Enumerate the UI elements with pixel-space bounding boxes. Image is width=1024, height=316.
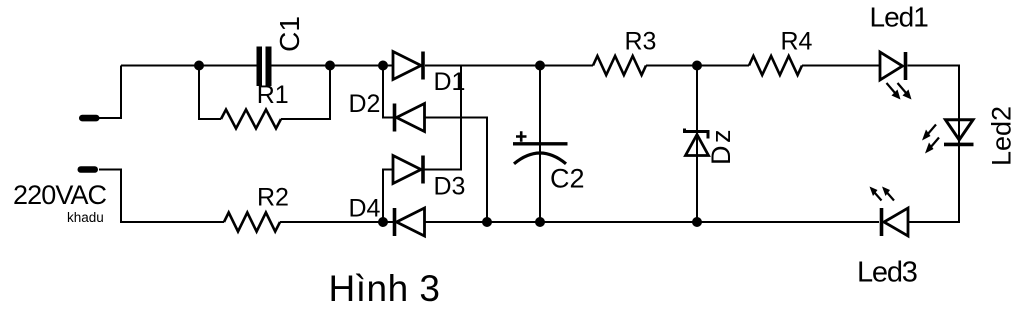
wire <box>383 170 393 223</box>
diode D4 <box>395 208 425 236</box>
diode D3 <box>393 156 423 184</box>
wire <box>281 66 330 120</box>
wire <box>802 65 880 67</box>
capacitor C2 <box>513 131 568 164</box>
svg-text:C1: C1 <box>274 16 305 52</box>
svg-text:Led1: Led1 <box>870 1 929 32</box>
capacitor C1 <box>257 47 272 87</box>
svg-text:Dz: Dz <box>706 127 736 165</box>
node <box>692 217 702 227</box>
wire <box>99 66 121 119</box>
node <box>535 61 545 71</box>
resistor R4 <box>749 56 802 75</box>
wire <box>199 66 221 120</box>
svg-text:220VAC: 220VAC <box>13 180 107 210</box>
svg-text:C2: C2 <box>550 164 585 194</box>
svg-text:D1: D1 <box>434 68 466 96</box>
zener diode Dz <box>685 129 709 156</box>
wire <box>425 65 593 67</box>
node <box>535 217 545 227</box>
svg-text:khadu: khadu <box>67 210 104 225</box>
LED Led2 <box>922 120 974 154</box>
resistor R3 <box>593 56 646 75</box>
node <box>482 217 492 227</box>
node <box>692 61 702 71</box>
wire <box>280 221 393 223</box>
LED Led1 <box>880 52 912 100</box>
terminal bottom <box>78 166 99 173</box>
diode D2 <box>395 104 425 132</box>
wire <box>646 65 749 67</box>
wire <box>99 170 224 223</box>
resistor R2 <box>224 213 280 232</box>
wire <box>908 66 960 223</box>
svg-text:R3: R3 <box>625 28 657 56</box>
node <box>194 61 204 71</box>
svg-text:R1: R1 <box>257 81 289 109</box>
wire <box>383 66 395 118</box>
wire <box>539 66 541 223</box>
wire <box>272 65 394 67</box>
node <box>325 61 335 71</box>
diode D1 <box>393 52 423 80</box>
node <box>378 61 388 71</box>
wire <box>425 118 488 223</box>
wire <box>423 66 461 170</box>
terminal top <box>79 115 100 122</box>
svg-text:D4: D4 <box>349 195 381 223</box>
wire <box>696 66 698 223</box>
svg-text:R2: R2 <box>257 184 289 212</box>
svg-text:R4: R4 <box>781 28 813 56</box>
LED Led3 <box>870 187 909 237</box>
svg-text:Led3: Led3 <box>857 256 917 288</box>
wire <box>425 221 880 223</box>
svg-text:D2: D2 <box>349 90 381 118</box>
svg-text:D3: D3 <box>434 173 466 201</box>
svg-text:Led2: Led2 <box>987 106 1017 166</box>
resistor R1 <box>221 110 281 129</box>
wire <box>121 65 257 67</box>
svg-text:Hình 3: Hình 3 <box>329 268 441 309</box>
node <box>378 217 388 227</box>
